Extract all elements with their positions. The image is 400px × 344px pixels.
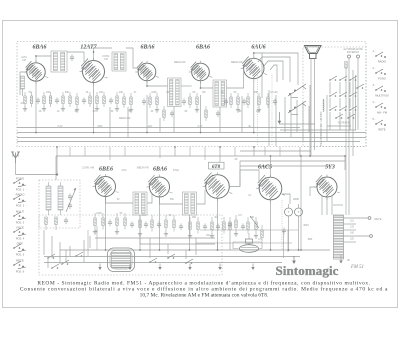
- resistor R41: [102, 218, 104, 226]
- switch S22: [75, 255, 77, 257]
- terminal J2: [357, 55, 360, 58]
- wire mid horizontal 2: [240, 160, 345, 162]
- junction dot 6: [174, 146, 176, 148]
- wire R52 leads: [235, 215, 237, 220]
- bus drop IF4: [139, 215, 141, 250]
- svg-text:POS. 6: POS. 6: [16, 269, 25, 273]
- tube V4 6BA6 IF amp: [192, 63, 210, 81]
- svg-text:50K: 50K: [170, 199, 175, 201]
- IF transformer T3: [213, 80, 227, 107]
- svg-text:6AC5: 6AC5: [258, 164, 272, 170]
- wire T5 to V8 grid: [197, 190, 206, 204]
- wire R47 leads: [173, 215, 175, 220]
- heater drop 5: [299, 147, 301, 156]
- svg-text:AM - FM: AM - FM: [377, 111, 388, 115]
- svg-text:MULTI: MULTI: [16, 210, 24, 214]
- loudspeaker LS1: [305, 46, 322, 54]
- resistor R8: [89, 96, 91, 104]
- capacitor C23: [157, 223, 161, 225]
- terminal mains 2: [370, 235, 373, 238]
- wire pair right low: [283, 230, 285, 258]
- stub drop f: [189, 147, 191, 156]
- wire V8 to V9 coupling: [229, 170, 259, 187]
- switch contact S2: [329, 79, 331, 81]
- switch contact S13: [347, 117, 349, 119]
- stub drop a: [69, 147, 71, 156]
- wire R13 leads: [130, 93, 132, 97]
- wafer switch S1a: [289, 93, 291, 95]
- resistor Rt2: [55, 217, 57, 225]
- resistor R55: [261, 230, 263, 238]
- capacitor C27: [228, 223, 232, 225]
- ground below R7: [76, 108, 78, 110]
- wire V9 plate up: [270, 156, 272, 177]
- resistor R40: [94, 218, 96, 226]
- svg-text:RETE: RETE: [378, 128, 385, 132]
- capacitor C22: [144, 223, 148, 225]
- junction dot 16: [56, 174, 58, 176]
- svg-text:MEDIA FR.: MEDIA FR.: [137, 167, 150, 170]
- wire R41 leads: [102, 213, 104, 218]
- wire R46 leads: [165, 215, 167, 220]
- resistor R23: [258, 97, 260, 105]
- svg-text:1K: 1K: [221, 92, 224, 94]
- wire R3 leads: [43, 92, 45, 96]
- svg-text:50K: 50K: [65, 91, 70, 94]
- capacitor C10: [216, 112, 220, 114]
- junction dot 25: [344, 155, 346, 157]
- stub drop h: [234, 147, 236, 156]
- capacitor C24: [179, 225, 183, 227]
- mic box wire 6: [185, 250, 187, 259]
- wire R21 leads: [237, 93, 239, 97]
- wire osc coil to V3: [126, 48, 138, 68]
- junction dot 18: [189, 249, 191, 251]
- terminal J1: [348, 55, 351, 58]
- resistor R7: [76, 97, 78, 105]
- svg-text:2M: 2M: [274, 92, 277, 94]
- ground below R48: [189, 234, 191, 236]
- bus drop V2: [93, 83, 95, 133]
- wire 5Y3 plates: [321, 196, 323, 216]
- wire R45 leads: [151, 215, 153, 220]
- arrow down right: [293, 256, 295, 262]
- wire right long 2: [355, 75, 357, 130]
- svg-text:FM: FM: [22, 59, 25, 62]
- arrow down contact: [278, 112, 280, 122]
- svg-text:MULTIVOX: MULTIVOX: [375, 94, 389, 98]
- capacitor C5: [82, 99, 86, 101]
- wire V7 plate to T5: [160, 197, 183, 204]
- resistor R50: [211, 222, 213, 230]
- wire speaker lead 2: [314, 59, 316, 151]
- bus wire F: [44, 262, 282, 264]
- svg-text:20MF: 20MF: [293, 198, 300, 201]
- wire B+ drop left: [55, 156, 57, 180]
- svg-text:1M: 1M: [214, 216, 217, 219]
- switch wiring lower-left: [43, 230, 45, 255]
- svg-text:MF: MF: [202, 92, 206, 94]
- wire R1 leads: [24, 92, 26, 96]
- ground below R13: [130, 108, 132, 110]
- wire R17 leads: [189, 93, 191, 97]
- svg-text:RADIO: RADIO: [16, 193, 26, 197]
- svg-text:3 -: 3 -: [373, 84, 376, 87]
- resistor R42: [116, 218, 118, 226]
- ground arrow 5: [252, 264, 254, 269]
- bus drop V1: [35, 81, 37, 132]
- heater drop 3: [219, 147, 221, 162]
- svg-text:Sintomagic: Sintomagic: [275, 263, 338, 278]
- svg-text:RETE: RETE: [16, 259, 24, 263]
- switch S21: [61, 263, 63, 265]
- wire V1 plate to T1: [36, 56, 51, 63]
- switch S23: [51, 267, 53, 269]
- trimmer caps tuner: [68, 195, 72, 197]
- wire low horizontal 2: [196, 242, 292, 244]
- wire R44 leads: [139, 215, 141, 220]
- svg-text:6BE6: 6BE6: [99, 166, 113, 172]
- resistor R53: [247, 222, 249, 230]
- svg-text:MF: MF: [166, 92, 170, 94]
- wire R43 leads: [124, 213, 126, 218]
- capacitor C26: [216, 225, 220, 227]
- bus drop V7: [159, 198, 161, 251]
- mic box wire 4: [149, 238, 151, 258]
- oscillator coil T1b: [112, 52, 126, 71]
- junction dot 8: [253, 146, 255, 148]
- resistor R47: [173, 220, 175, 228]
- wire filter B+: [300, 156, 302, 250]
- svg-text:250: 250: [192, 216, 197, 219]
- capacitor C8: [170, 112, 174, 114]
- capacitor C7: [142, 100, 146, 102]
- svg-text:POS. 3: POS. 3: [16, 220, 25, 224]
- svg-text:5K: 5K: [193, 91, 196, 94]
- ground below R11: [116, 107, 118, 109]
- svg-text:10K: 10K: [119, 91, 124, 94]
- svg-text:RETE: RETE: [375, 217, 382, 221]
- capacitor C2 output: [345, 62, 347, 69]
- legend item RETE: [375, 123, 377, 125]
- tube V8 6T8 detector: [206, 175, 230, 199]
- tube V2 12AT7 converter: [83, 61, 105, 83]
- AM tuning coil L3: [58, 186, 63, 210]
- wire vert extra b: [96, 226, 98, 250]
- wire V3 plate to T2: [147, 81, 168, 86]
- bus drop extra3: [159, 118, 161, 133]
- ground below R15: [156, 108, 158, 110]
- legend item FONO: [375, 72, 377, 74]
- wire R6 leads: [69, 92, 71, 96]
- mic box wire 2: [140, 243, 215, 245]
- svg-text:POS. 2: POS. 2: [16, 203, 25, 207]
- pickup oval PU1: [240, 245, 259, 253]
- svg-text:6BA6: 6BA6: [196, 44, 210, 50]
- junction dot 10: [159, 249, 161, 251]
- resistor R6: [69, 96, 71, 104]
- wire R14 leads: [149, 93, 151, 97]
- junction dot 20: [35, 55, 37, 57]
- switch contact S4: [349, 79, 351, 81]
- svg-text:6BA6: 6BA6: [32, 44, 46, 50]
- capacitor C20: [108, 221, 112, 223]
- resistor R52: [235, 220, 237, 228]
- svg-text:FONO: FONO: [16, 177, 25, 181]
- junction dot 11: [217, 249, 219, 251]
- resistor R13: [130, 97, 132, 105]
- ground below R3: [43, 107, 45, 109]
- dotted harness 2: [271, 75, 273, 146]
- tube V9 6AC5 output: [259, 177, 282, 200]
- electrolytic C40: [285, 208, 293, 216]
- wire R5 leads: [62, 92, 64, 96]
- wire T1 to V2 grid: [67, 52, 84, 62]
- svg-text:FM 51: FM 51: [350, 265, 364, 270]
- bus drop V8: [217, 199, 219, 251]
- ground arrow 1: [129, 264, 131, 269]
- resistor R21: [237, 97, 239, 105]
- stub drop b: [84, 147, 86, 156]
- svg-text:CONV. AM: CONV. AM: [82, 167, 94, 170]
- wire T2 to V4 grid: [181, 85, 192, 87]
- svg-text:5K: 5K: [169, 214, 172, 217]
- wire T4 to V7 grid: [147, 193, 152, 203]
- bus drop IF5: [189, 215, 191, 250]
- legend item RADIO: [375, 55, 377, 57]
- wire staircase 4: [270, 65, 277, 82]
- wire R8 leads: [89, 92, 91, 96]
- wire staircase 2: [258, 57, 290, 82]
- svg-text:1M: 1M: [92, 111, 95, 113]
- heater drop 1: [56, 147, 58, 175]
- trimmer capacitor C1: [70, 56, 74, 58]
- wire R20 leads: [230, 93, 232, 97]
- wire V2 plate to osc coil: [94, 48, 113, 61]
- switch contact S9: [329, 109, 331, 111]
- svg-text:12AT7: 12AT7: [80, 44, 97, 50]
- junction dot 19: [93, 51, 95, 53]
- ground below R42: [116, 230, 118, 232]
- resistor R5: [62, 96, 64, 104]
- mic box wire 3: [139, 238, 141, 244]
- resistor R19: [205, 110, 207, 118]
- capacitor C11: [224, 100, 228, 102]
- ground below R46: [165, 232, 167, 234]
- svg-text:6BA6: 6BA6: [140, 44, 154, 50]
- wire R24 leads: [267, 93, 269, 97]
- speaker-switch dashed sub-enclosure: [303, 47, 366, 147]
- tube V10 5Y3 rectifier: [317, 177, 337, 197]
- wire R54 leads: [255, 217, 257, 222]
- wire tuner stub 2: [55, 225, 57, 231]
- switch contact S7: [349, 95, 351, 97]
- junction dot 15: [270, 155, 272, 157]
- svg-text:ESTERNO: ESTERNO: [347, 51, 359, 54]
- switch S24: [149, 261, 151, 263]
- svg-text:MICROFONO: MICROFONO: [115, 268, 128, 270]
- capacitor C9: [182, 100, 186, 102]
- svg-text:100: 100: [46, 91, 51, 94]
- wire det out: [217, 242, 219, 250]
- bus drop T3: [219, 107, 221, 133]
- bus drop V6: [105, 197, 107, 250]
- IF transformer T4: [133, 192, 147, 215]
- resistor R10: [103, 96, 105, 104]
- FM antenna coil L1: [21, 76, 25, 89]
- wire v from bus: [239, 161, 241, 187]
- wire TR1 taps: [344, 217, 369, 219]
- capacitor Ct1: [64, 219, 68, 221]
- ground below R18: [196, 108, 198, 110]
- capacitor C3: [36, 99, 40, 101]
- stub drop e: [159, 147, 161, 158]
- svg-text:25K: 25K: [254, 91, 259, 94]
- junction dot 26: [288, 249, 290, 251]
- resistor R15: [156, 97, 158, 105]
- wire R15 leads: [156, 93, 158, 97]
- junction dot 7: [219, 146, 221, 148]
- tuner coil dashed box: [39, 180, 80, 228]
- ground below R21: [237, 108, 239, 110]
- dotted drop 6AC5: [281, 200, 283, 250]
- switch contact S12: [335, 117, 337, 119]
- tube V5 6AU6 limiter: [244, 58, 264, 78]
- wire R19 leads: [205, 106, 207, 110]
- FM input transformer T1: [51, 51, 67, 72]
- wire R40 leads: [94, 213, 96, 218]
- capacitor C25: [203, 225, 207, 227]
- bus wire A AVC: [17, 132, 366, 134]
- wire speaker lead 1: [310, 59, 312, 157]
- wire tuner stub 1: [45, 225, 47, 231]
- tube V7 6BA6 AM IF: [150, 177, 170, 197]
- resistor R43: [124, 218, 126, 226]
- wire V6 plate to T4: [106, 197, 134, 204]
- wire R22 leads: [247, 93, 249, 97]
- switch contact S3: [339, 79, 341, 81]
- ground arrow 2: [159, 264, 161, 269]
- wire low horizontal 1: [200, 229, 298, 231]
- svg-text:350V: 350V: [303, 224, 309, 227]
- wire V4 plate to T3: [201, 81, 214, 88]
- switch contact S5: [329, 95, 331, 97]
- resistor R9: [96, 96, 98, 104]
- switch S26: [185, 262, 187, 264]
- volume control P1: [229, 222, 231, 230]
- capacitor C28: [241, 225, 245, 227]
- resistor R46: [165, 220, 167, 228]
- svg-text:POS. 4: POS. 4: [16, 236, 25, 240]
- svg-text:MEDIA FR.: MEDIA FR.: [231, 61, 243, 64]
- svg-text:8K: 8K: [185, 111, 188, 113]
- wire R23 leads: [258, 93, 260, 97]
- wire R4 leads: [50, 92, 52, 96]
- heater drop 2: [174, 147, 176, 156]
- microphone section dashed box: [39, 215, 222, 275]
- svg-text:1K: 1K: [86, 91, 89, 94]
- svg-text:6BA6: 6BA6: [153, 166, 167, 172]
- svg-text:FM: FM: [104, 58, 107, 61]
- junction dot 24: [300, 155, 302, 157]
- junction dot 22: [200, 87, 202, 89]
- bus wire D: [60, 249, 330, 251]
- switch contact S11: [349, 109, 351, 111]
- svg-text:OSC: OSC: [122, 170, 127, 172]
- bus wire B heaters: [17, 137, 366, 139]
- wire R12 leads: [123, 93, 125, 97]
- junction dot 0: [35, 132, 37, 134]
- terminal mains 1: [368, 217, 371, 220]
- wire right long 1: [352, 70, 354, 156]
- junction dot 3: [200, 132, 202, 134]
- wire staircase 3: [264, 61, 283, 80]
- wire output to speaker: [309, 85, 311, 156]
- wire R7 leads: [76, 93, 78, 97]
- ground below R54: [255, 234, 257, 236]
- legend item MULTIVOX: [375, 89, 377, 91]
- svg-text:FONO: FONO: [378, 77, 386, 81]
- svg-text:MEDIA FR.: MEDIA FR.: [119, 117, 131, 120]
- switch S25: [167, 257, 169, 259]
- svg-text:5 -: 5 -: [373, 118, 376, 121]
- svg-text:4 -: 4 -: [373, 101, 376, 104]
- resistor R12: [123, 97, 125, 105]
- wire R50 leads: [211, 217, 213, 222]
- svg-text:5Y3: 5Y3: [325, 164, 335, 170]
- AM tuning coil L2: [46, 186, 51, 210]
- wire R42 leads: [116, 213, 118, 218]
- legend item AM - FM: [375, 106, 377, 108]
- wire V9 screen: [282, 194, 290, 204]
- variable capacitor arrow: [66, 188, 76, 212]
- wire grid return V1: [20, 72, 27, 95]
- resistor R2: [30, 96, 32, 104]
- FM section dashed enclosure: [17, 42, 366, 147]
- resistor R48: [189, 222, 191, 230]
- svg-text:6AU6: 6AU6: [251, 44, 265, 50]
- ground arrow 0: [99, 264, 101, 269]
- junction dot 12: [270, 249, 272, 251]
- switch contact S10: [339, 109, 341, 111]
- svg-text:AP: AP: [234, 158, 238, 161]
- bus drop extra4: [241, 96, 243, 133]
- B+ distribution wire: [56, 155, 345, 157]
- resistor R44: [139, 220, 141, 228]
- resistor Rt1: [45, 217, 47, 225]
- junction dot 23: [253, 52, 255, 54]
- resistor R4: [49, 96, 51, 104]
- tube V1 6BA6 RF amp: [27, 63, 45, 81]
- bus wire C B+: [17, 141, 360, 143]
- dotted harness 1: [257, 75, 259, 146]
- svg-text:10,7 Mc. Rivelazione AM e FM a: 10,7 Mc. Rivelazione AM e FM attenuata c…: [140, 293, 269, 299]
- ground below R44: [139, 232, 141, 234]
- junction dot 21: [146, 85, 148, 87]
- svg-text:100K: 100K: [96, 212, 102, 215]
- wire +B arrow: [340, 255, 342, 263]
- wafer switch S1b: [289, 110, 291, 112]
- resistor R16: [163, 110, 165, 118]
- bus drop V5: [253, 79, 255, 133]
- svg-text:RADIO: RADIO: [378, 60, 387, 64]
- bus drop extra2: [127, 107, 129, 138]
- stub drop j: [279, 147, 281, 156]
- bus drop extra1: [109, 107, 111, 138]
- svg-text:6T8: 6T8: [212, 164, 221, 170]
- wire R51 leads: [223, 217, 225, 222]
- electrolytic C41: [295, 208, 303, 216]
